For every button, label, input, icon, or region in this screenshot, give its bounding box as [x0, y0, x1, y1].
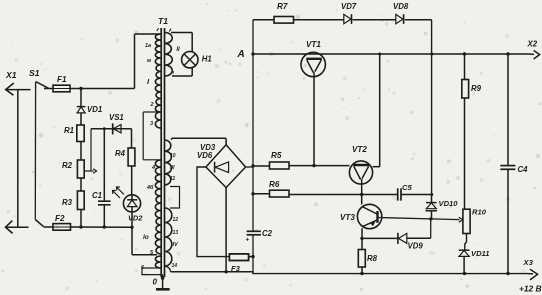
wire VT2 collector from rail — [379, 54, 381, 167]
svg-text:10: 10 — [170, 153, 176, 159]
node junction R5 column — [251, 164, 254, 167]
node junction bridge bottom rail — [224, 270, 227, 273]
svg-text:R9: R9 — [471, 84, 482, 93]
wire bottom rail — [253, 272, 528, 274]
wire VT2 emitter down — [361, 184, 363, 205]
capacitor C5 — [397, 188, 399, 200]
T1 primary winding 4 — [155, 160, 160, 196]
node junction C4 rail — [506, 272, 509, 275]
resistor R6 — [270, 190, 290, 197]
node junction ground — [161, 276, 165, 280]
wire VS1 gate line — [90, 129, 92, 171]
capacitor C1 — [98, 200, 111, 202]
T1 primary winding 6 — [155, 256, 160, 268]
T1 primary winding 1a — [155, 34, 160, 58]
svg-text:III: III — [170, 165, 175, 171]
svg-text:VD1: VD1 — [87, 105, 102, 114]
resistor R2 wiper arrow — [84, 170, 93, 172]
fuse F2 — [44, 226, 53, 228]
svg-text:3: 3 — [150, 121, 153, 127]
node junction VD2/bottom — [130, 226, 133, 229]
transformer T1 core — [160, 28, 162, 277]
svg-text:н: н — [171, 70, 174, 76]
wire bottom line — [71, 226, 133, 228]
resistor R8 — [358, 250, 365, 268]
T1 terminal ticks — [157, 28, 159, 31]
node junction R6/VT2 emitter — [360, 193, 363, 196]
svg-text:VS1: VS1 — [109, 113, 124, 122]
svg-text:VD10: VD10 — [439, 199, 459, 208]
wire R2-R3 — [80, 178, 82, 191]
svg-text:12: 12 — [173, 217, 179, 223]
wire R1-R2 — [80, 142, 82, 161]
svg-text:4б: 4б — [146, 184, 154, 191]
wire VD2 to bottom — [131, 212, 133, 227]
node junction A — [251, 52, 254, 55]
svg-text:VD6: VD6 — [197, 151, 213, 160]
transistor VT2 — [349, 161, 372, 184]
resistor R5 — [270, 162, 290, 169]
svg-text:2: 2 — [150, 102, 154, 108]
wire C4 column — [507, 54, 509, 166]
wire C2 bottom — [252, 235, 254, 257]
wire main vertical top — [252, 20, 254, 232]
svg-text:F2: F2 — [55, 214, 65, 223]
capacitor C1 lead top — [103, 129, 105, 201]
node junction X2/R9 — [463, 52, 466, 55]
diode VD8 — [396, 14, 403, 23]
resistor R4 — [128, 148, 135, 166]
fuse F1 — [44, 88, 53, 90]
svg-text:X2: X2 — [527, 40, 538, 49]
bridge rectifier VD3-VD6 — [206, 145, 246, 188]
node junction R6 column — [251, 192, 254, 195]
T1 winding III-IV jumper — [170, 187, 180, 209]
T1 primary tap 2 wire — [143, 111, 160, 113]
wire to tap 5 — [131, 227, 133, 254]
diode VD10 — [431, 195, 433, 203]
svg-text:VD2: VD2 — [128, 214, 143, 223]
diode VD1 — [80, 89, 82, 107]
ground 0 wire — [162, 275, 164, 289]
resistor R4 lead — [131, 129, 133, 148]
lamp H1 wires — [171, 32, 192, 34]
transistor VT1 — [301, 52, 325, 76]
svg-text:R3: R3 — [62, 198, 73, 207]
switch S1 pole link — [34, 82, 36, 220]
svg-text:VD9: VD9 — [408, 242, 424, 251]
svg-text:H1: H1 — [202, 55, 212, 64]
svg-text:4: 4 — [151, 165, 155, 171]
diode VD9 — [362, 237, 398, 239]
svg-text:X1: X1 — [5, 70, 17, 80]
capacitor C1 junction — [103, 127, 106, 130]
svg-text:VT2: VT2 — [352, 145, 367, 154]
svg-text:14: 14 — [172, 263, 178, 269]
svg-text:F3: F3 — [231, 264, 241, 273]
svg-text:R5: R5 — [271, 151, 282, 160]
svg-text:R2: R2 — [62, 161, 73, 170]
fuse F3 — [229, 254, 248, 261]
diode VD11 — [459, 249, 470, 251]
diode VD7 — [344, 14, 351, 23]
T1 tap jumper 2-4 — [142, 112, 144, 160]
T1 secondary winding IV — [165, 208, 172, 266]
wire R4-VD2 — [131, 166, 133, 195]
svg-text:+: + — [246, 237, 250, 244]
wire VD10 column from rail — [431, 20, 433, 195]
svg-text:VT1: VT1 — [306, 40, 321, 49]
wire R8 to rail — [361, 267, 363, 274]
svg-text:C2: C2 — [262, 229, 273, 238]
capacitor C1 lead bottom — [103, 205, 105, 227]
led VD2 — [123, 195, 140, 212]
node junction VD10/base line — [429, 217, 432, 220]
wire bridge to R5 — [246, 166, 253, 168]
svg-text:X3: X3 — [523, 258, 534, 267]
resistor R9 — [462, 80, 469, 99]
T1 secondary winding II — [165, 33, 172, 77]
svg-text:R8: R8 — [367, 254, 378, 263]
resistor R7 — [274, 17, 294, 24]
svg-text:R10: R10 — [472, 208, 487, 217]
T1 secondary winding III — [165, 140, 171, 185]
svg-text:VD7: VD7 — [341, 2, 357, 11]
T1 primary winding Io — [155, 196, 160, 254]
transistor VT3 — [357, 204, 381, 228]
ground symbol — [156, 288, 170, 291]
node junction R3/bottom — [79, 225, 82, 228]
resistor R3 — [77, 191, 84, 210]
wire R6 to C5 — [289, 194, 397, 196]
node junction VD11 rail — [463, 272, 466, 275]
node junction X2/C4 — [506, 52, 509, 55]
node junction F3/C2 column — [251, 255, 254, 258]
node junction VT2 collector rail — [378, 53, 381, 56]
svg-text:R6: R6 — [269, 180, 280, 189]
T1 primary tap 1 wire — [157, 33, 161, 35]
trimmer R10 — [463, 209, 470, 233]
svg-text:R7: R7 — [277, 2, 288, 11]
wire VT1 emitter down — [313, 77, 315, 166]
led VD2 arrows — [117, 188, 124, 195]
wire X1 link vertical — [17, 89, 19, 227]
T1 tap 6 wire — [152, 267, 161, 269]
wire A rail — [253, 53, 529, 55]
resistor R1 — [77, 125, 84, 142]
svg-text:+12 В: +12 В — [519, 283, 542, 293]
svg-text:C5: C5 — [402, 183, 412, 192]
lamp H1 — [182, 52, 198, 68]
thyristor VS1 — [112, 123, 114, 134]
node junction F1/VD1 — [79, 87, 82, 90]
wire VT3 emitter down — [361, 228, 363, 238]
connector X1 pin 2 (arrow) — [6, 226, 29, 228]
svg-text:VT3: VT3 — [340, 213, 355, 222]
svg-text:VD8: VD8 — [393, 2, 409, 11]
wire winding III to bridge — [171, 138, 173, 140]
node junction VD10 rail — [430, 53, 433, 56]
connector X3 arrow — [528, 273, 533, 275]
switch S1 blade 1 — [36, 82, 49, 89]
T1 primary winding I — [155, 58, 160, 112]
svg-text:F1: F1 — [57, 75, 67, 84]
svg-text:C1: C1 — [92, 191, 102, 200]
svg-text:T1: T1 — [158, 16, 168, 26]
connector X2 arrow — [529, 53, 534, 55]
svg-text:13: 13 — [173, 230, 179, 236]
svg-text:1a: 1a — [145, 43, 151, 49]
wire bridge left vertex to F3 — [197, 167, 229, 257]
capacitor C2 — [247, 230, 261, 232]
resistor R8 lead — [361, 238, 363, 249]
wire R9 to R10 — [464, 98, 466, 209]
wire R6 start — [253, 193, 270, 195]
svg-text:R4: R4 — [115, 149, 126, 158]
wire VT3 base — [378, 218, 460, 220]
svg-text:Iо: Iо — [143, 234, 149, 241]
wire F3 junction down — [252, 257, 254, 274]
node junction C1/bottom — [103, 225, 106, 228]
svg-text:0: 0 — [153, 278, 158, 287]
wire R10 to VD11 — [465, 234, 467, 251]
wire right column upper — [464, 53, 466, 80]
thyristor VS1 line — [91, 128, 132, 130]
trimmer R10 wiper — [459, 217, 463, 222]
wire R5 to VT2 — [289, 165, 350, 167]
svg-text:S1: S1 — [29, 68, 40, 78]
capacitor C4 — [500, 165, 515, 167]
node junction rail R8 — [360, 272, 363, 275]
svg-text:11: 11 — [170, 176, 175, 182]
node junction R5/VT1 — [312, 164, 315, 167]
resistor R2 — [77, 160, 84, 178]
wire R3 to bottom line — [80, 210, 82, 228]
wire VD10 to VD9 — [430, 219, 432, 238]
switch S1 blade 2 — [35, 220, 44, 227]
svg-text:R1: R1 — [64, 126, 74, 135]
svg-text:A: A — [237, 49, 245, 60]
T1 primary winding section 3 — [155, 112, 160, 128]
wire bridge bottom to rail — [225, 188, 227, 272]
wire top rail — [253, 19, 274, 21]
T1 tap 14 wire — [165, 266, 171, 272]
connector X1 pin 1 (arrow) — [6, 89, 31, 91]
node junction C5/VD10 — [430, 193, 433, 196]
svg-text:VD11: VD11 — [471, 249, 489, 258]
node junction VT3 emitter — [360, 237, 363, 240]
svg-text:II: II — [176, 47, 180, 53]
wire F1 to T1 primary top — [81, 88, 135, 90]
svg-text:C4: C4 — [518, 165, 529, 174]
svg-text:м: м — [147, 58, 151, 64]
